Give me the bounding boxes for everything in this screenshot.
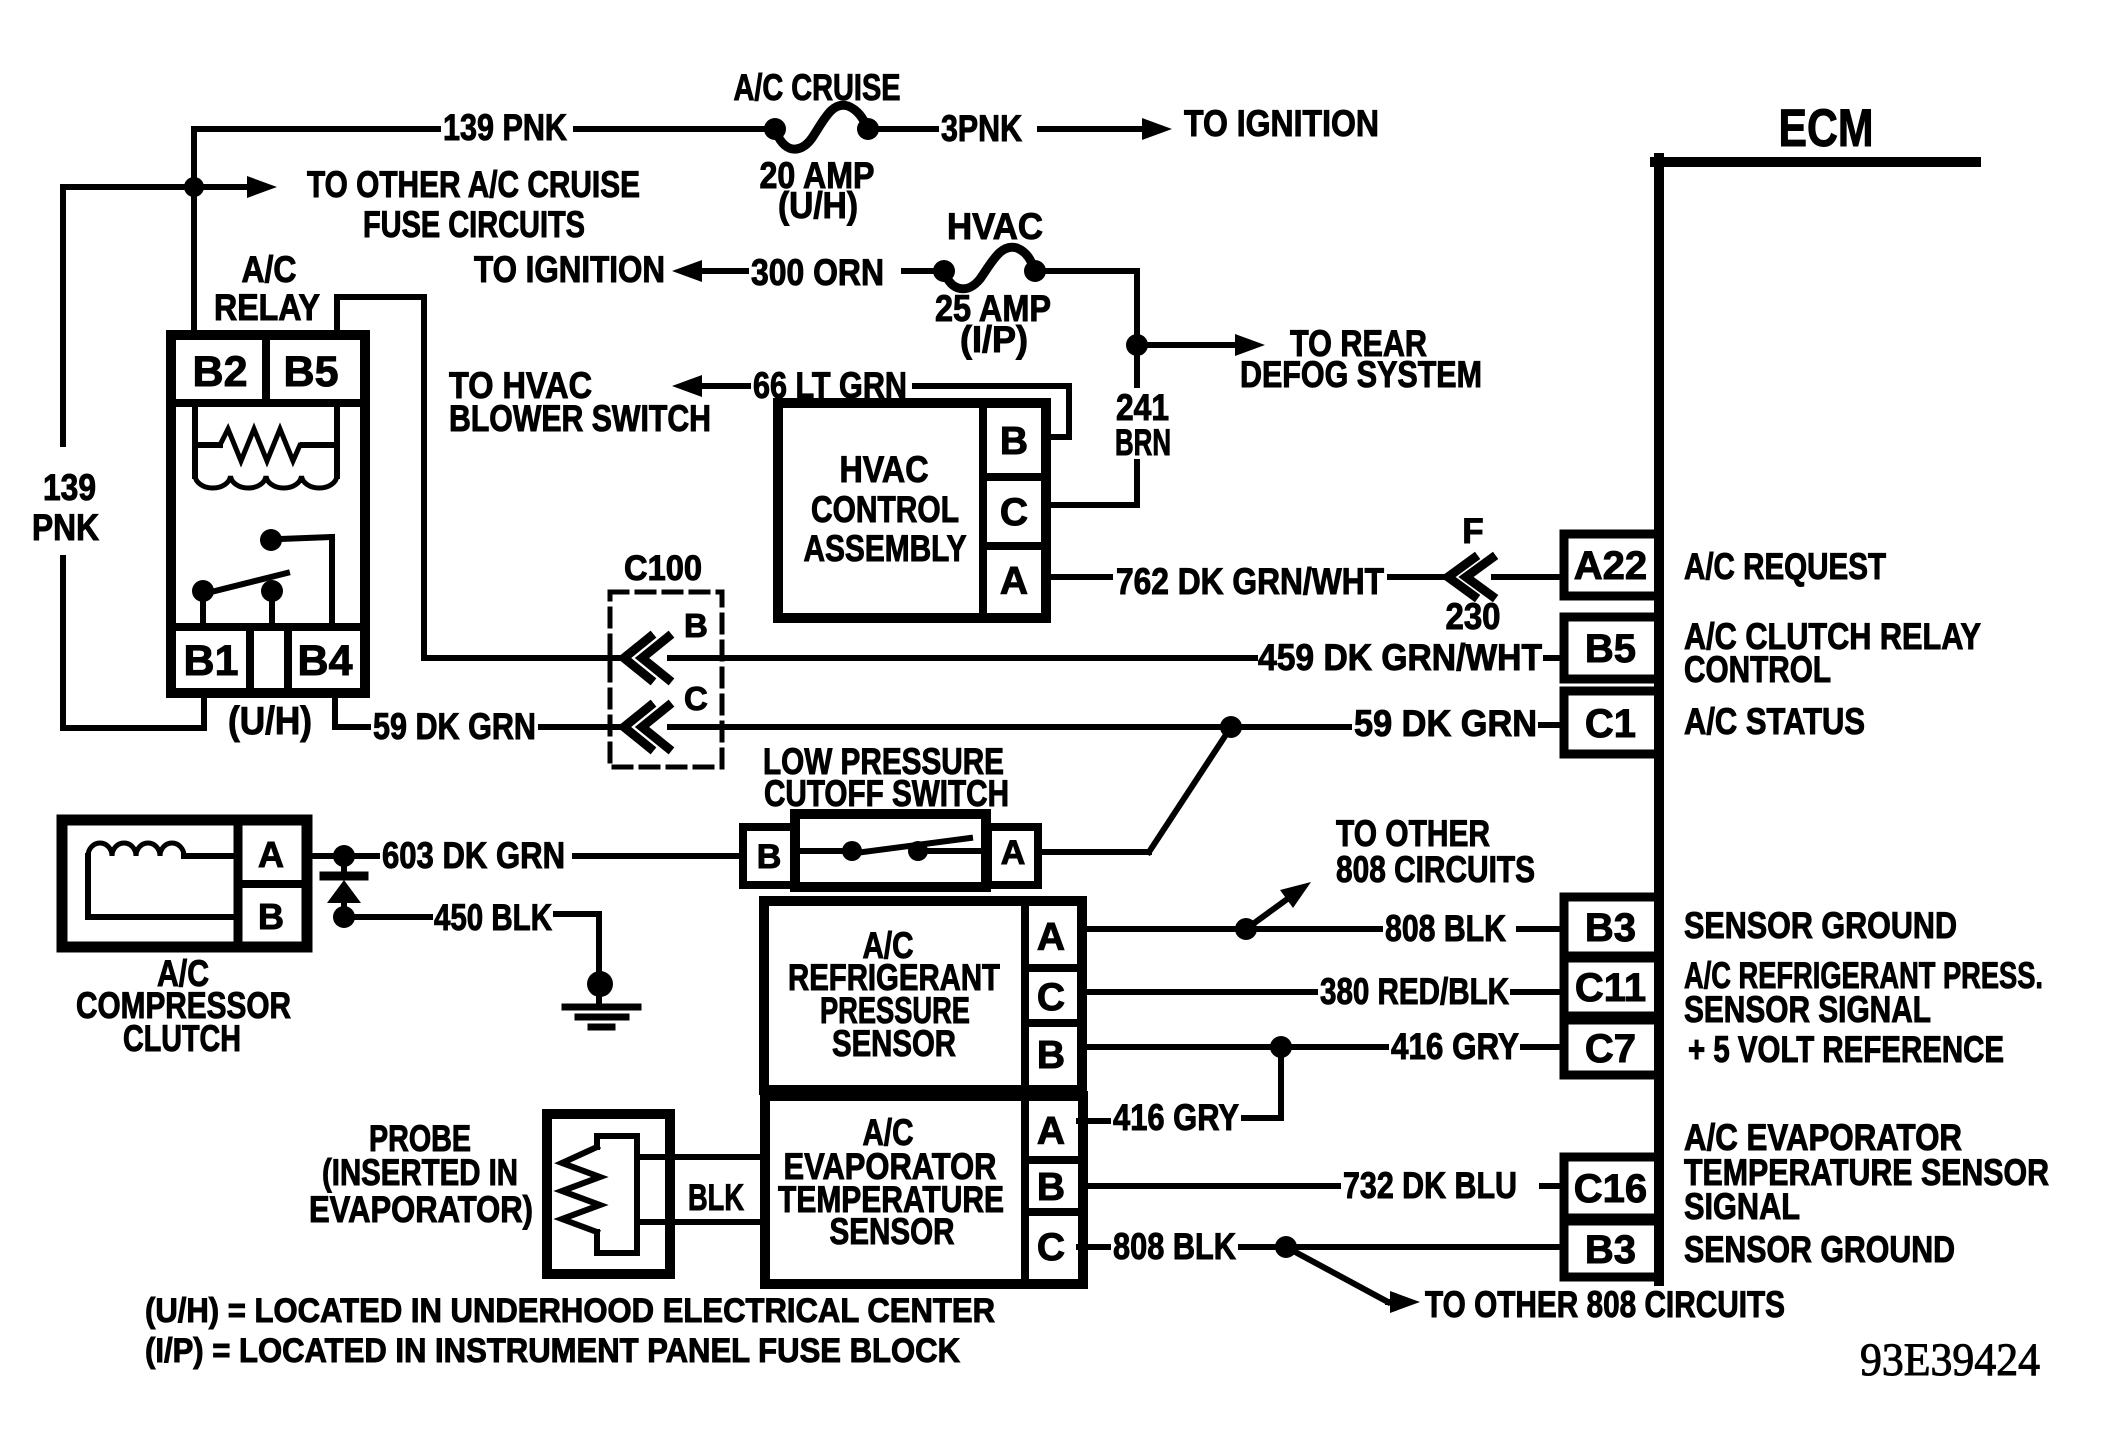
svg-text:SENSOR GROUND: SENSOR GROUND <box>1684 1229 1955 1270</box>
svg-text:B: B <box>1037 1034 1065 1077</box>
svg-text:808 CIRCUITS: 808 CIRCUITS <box>1336 849 1535 890</box>
svg-text:C16: C16 <box>1574 1167 1647 1211</box>
svg-text:RELAY: RELAY <box>214 287 320 328</box>
svg-text:A: A <box>1001 834 1026 872</box>
svg-text:B3: B3 <box>1585 906 1636 950</box>
svg-text:SENSOR SIGNAL: SENSOR SIGNAL <box>1684 989 1931 1030</box>
svg-text:ASSEMBLY: ASSEMBLY <box>804 528 967 569</box>
svg-text:EVAPORATOR): EVAPORATOR) <box>309 1189 533 1230</box>
svg-text:A22: A22 <box>1574 544 1647 588</box>
svg-text:C7: C7 <box>1585 1027 1636 1071</box>
svg-text:B5: B5 <box>1585 627 1636 671</box>
svg-text:93E39424: 93E39424 <box>1860 1334 2040 1386</box>
svg-text:A: A <box>1037 916 1065 959</box>
svg-text:HVAC: HVAC <box>840 449 929 490</box>
svg-text:B: B <box>1037 1166 1065 1209</box>
svg-text:SENSOR: SENSOR <box>830 1211 955 1252</box>
svg-text:B2: B2 <box>193 348 248 396</box>
svg-text:B: B <box>757 838 782 876</box>
svg-text:PNK: PNK <box>32 507 99 548</box>
svg-text:B: B <box>1000 420 1028 463</box>
svg-text:CLUTCH: CLUTCH <box>123 1018 241 1059</box>
svg-text:(U/H): (U/H) <box>228 700 312 743</box>
svg-text:450 BLK: 450 BLK <box>434 897 552 938</box>
svg-text:B1: B1 <box>184 637 239 685</box>
svg-text:BRN: BRN <box>1115 422 1171 463</box>
svg-text:(U/H): (U/H) <box>778 185 858 226</box>
svg-text:603 DK GRN: 603 DK GRN <box>382 835 565 876</box>
svg-text:139 PNK: 139 PNK <box>443 107 567 148</box>
svg-text:A: A <box>1037 1110 1065 1153</box>
svg-text:B4: B4 <box>298 637 353 685</box>
svg-text:C: C <box>1000 491 1028 534</box>
svg-text:+ 5 VOLT REFERENCE: + 5 VOLT REFERENCE <box>1688 1029 2004 1070</box>
svg-text:TO IGNITION: TO IGNITION <box>474 249 665 290</box>
svg-text:F: F <box>1462 512 1483 551</box>
svg-text:SIGNAL: SIGNAL <box>1684 1186 1800 1227</box>
svg-text:808 BLK: 808 BLK <box>1385 908 1506 949</box>
svg-text:59 DK GRN: 59 DK GRN <box>373 706 536 747</box>
svg-text:HVAC: HVAC <box>947 206 1043 247</box>
svg-text:732 DK BLU: 732 DK BLU <box>1343 1165 1517 1206</box>
svg-text:CONTROL: CONTROL <box>1684 649 1831 690</box>
svg-text:380 RED/BLK: 380 RED/BLK <box>1320 971 1509 1012</box>
svg-text:ECM: ECM <box>1779 99 1874 158</box>
svg-text:A/C: A/C <box>242 249 297 290</box>
svg-text:B: B <box>258 896 284 937</box>
svg-text:B3: B3 <box>1585 1228 1636 1272</box>
svg-text:DEFOG SYSTEM: DEFOG SYSTEM <box>1240 354 1482 395</box>
svg-text:808 BLK: 808 BLK <box>1113 1226 1236 1267</box>
svg-text:(INSERTED IN: (INSERTED IN <box>322 1152 518 1193</box>
svg-text:TO OTHER A/C CRUISE: TO OTHER A/C CRUISE <box>307 164 640 205</box>
svg-text:(U/H) = LOCATED IN UNDERHOOD: (U/H) = LOCATED IN UNDERHOOD ELECTRICAL … <box>145 1292 995 1330</box>
svg-text:416 GRY: 416 GRY <box>1113 1097 1239 1138</box>
svg-text:A/C REQUEST: A/C REQUEST <box>1684 546 1886 587</box>
svg-text:C: C <box>684 680 708 717</box>
svg-text:59 DK GRN: 59 DK GRN <box>1354 703 1537 744</box>
svg-text:FUSE CIRCUITS: FUSE CIRCUITS <box>363 204 585 245</box>
svg-text:A: A <box>1000 560 1028 603</box>
svg-text:TO OTHER 808 CIRCUITS: TO OTHER 808 CIRCUITS <box>1425 1284 1785 1325</box>
svg-text:3PNK: 3PNK <box>941 108 1022 149</box>
svg-text:416 GRY: 416 GRY <box>1391 1026 1519 1067</box>
svg-text:230: 230 <box>1446 596 1501 637</box>
svg-text:C11: C11 <box>1575 966 1646 1010</box>
svg-text:(I/P): (I/P) <box>960 319 1028 360</box>
svg-text:TO OTHER: TO OTHER <box>1336 813 1490 854</box>
svg-text:BLOWER SWITCH: BLOWER SWITCH <box>449 398 711 439</box>
svg-text:A/C CRUISE: A/C CRUISE <box>734 67 901 108</box>
svg-text:CONTROL: CONTROL <box>811 489 959 530</box>
svg-text:B5: B5 <box>284 348 339 396</box>
svg-text:SENSOR: SENSOR <box>832 1023 956 1064</box>
svg-text:C: C <box>1037 1226 1065 1269</box>
svg-text:SENSOR GROUND: SENSOR GROUND <box>1684 905 1957 946</box>
svg-text:C100: C100 <box>624 549 702 588</box>
svg-text:TO IGNITION: TO IGNITION <box>1184 103 1379 144</box>
svg-text:300 ORN: 300 ORN <box>751 252 884 293</box>
svg-text:A: A <box>258 834 284 875</box>
svg-text:C: C <box>1037 976 1065 1019</box>
svg-text:A/C STATUS: A/C STATUS <box>1684 701 1865 742</box>
svg-text:762 DK GRN/WHT: 762 DK GRN/WHT <box>1116 561 1384 602</box>
svg-text:CUTOFF SWITCH: CUTOFF SWITCH <box>764 773 1009 814</box>
svg-text:139: 139 <box>43 467 96 508</box>
svg-text:459 DK GRN/WHT: 459 DK GRN/WHT <box>1258 637 1542 678</box>
svg-text:C1: C1 <box>1585 702 1636 746</box>
svg-text:(I/P) = LOCATED IN INSTRUMEN: (I/P) = LOCATED IN INSTRUMENT PANEL FUSE… <box>145 1332 960 1370</box>
svg-text:B: B <box>684 607 708 644</box>
svg-text:BLK: BLK <box>688 1177 744 1218</box>
